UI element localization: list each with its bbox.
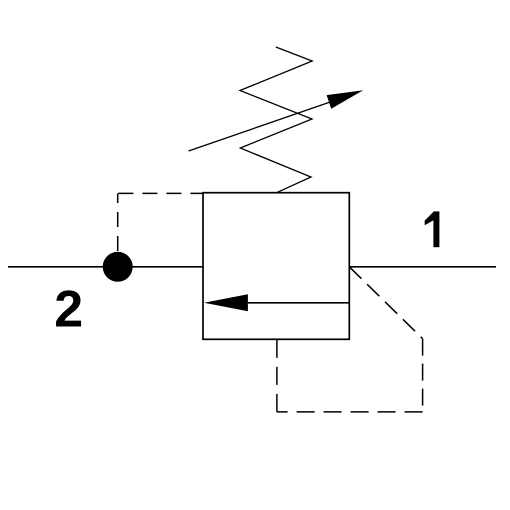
adjustment arrow head [327, 90, 364, 109]
wire: main line left segment (port 2 to valve body) [8, 266, 203, 268]
adjustment arrow shaft [189, 101, 333, 151]
spring (adjustable, zigzag) [240, 47, 312, 193]
flow arrow head (pointing left) [204, 294, 248, 311]
label: port 1 (stem) [433, 211, 439, 247]
drain line (dashed) vertical up to valve bottom [276, 339, 278, 412]
pilot line (dashed) vertical from node [117, 193, 119, 251]
valve envelope (body square) [203, 193, 349, 340]
drain line (dashed) right vertical [422, 339, 424, 412]
pilot line (dashed) horizontal to valve top-left [118, 192, 203, 194]
drain line (dashed) bottom horizontal [277, 411, 423, 413]
node: junction dot on line 2 [103, 252, 133, 282]
wire: main line right segment (valve body to port 1) [349, 266, 496, 268]
label: port 1 (flag) [425, 212, 434, 225]
flow arrow line inside valve [248, 302, 349, 304]
drain line (dashed) diagonal from port 1 junction [349, 267, 422, 339]
svg-text:2: 2 [54, 280, 83, 338]
